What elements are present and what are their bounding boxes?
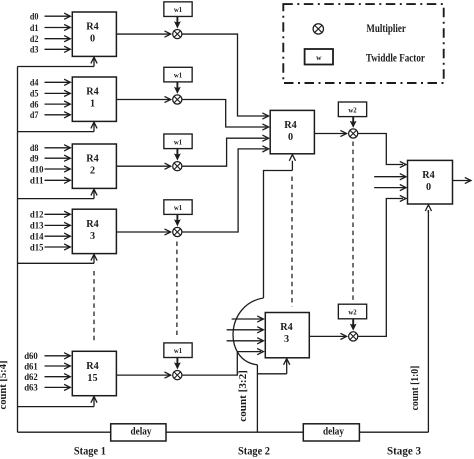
svg-text:d10: d10: [30, 165, 44, 175]
svg-text:d62: d62: [24, 373, 38, 383]
svg-text:w: w: [316, 53, 322, 62]
svg-text:w1: w1: [174, 139, 183, 146]
svg-text:w2: w2: [348, 310, 357, 317]
svg-text:d13: d13: [30, 222, 44, 232]
svg-text:Stage 3: Stage 3: [387, 444, 421, 458]
svg-text:Twiddle Factor: Twiddle Factor: [366, 52, 425, 64]
svg-text:count [5:4]: count [5:4]: [0, 361, 9, 410]
svg-text:d4: d4: [30, 79, 39, 89]
svg-text:0: 0: [90, 34, 95, 45]
svg-text:d8: d8: [30, 144, 39, 154]
svg-text:d12: d12: [30, 211, 44, 221]
svg-text:d1: d1: [30, 24, 39, 34]
svg-text:R4: R4: [284, 120, 296, 131]
svg-text:d60: d60: [24, 352, 38, 362]
svg-text:R4: R4: [86, 87, 98, 98]
svg-text:count [3:2]: count [3:2]: [238, 370, 249, 422]
svg-text:3: 3: [284, 334, 289, 345]
svg-text:R4: R4: [86, 22, 98, 33]
svg-text:Multiplier: Multiplier: [366, 23, 406, 35]
svg-text:0: 0: [426, 182, 431, 193]
svg-text:count [1:0]: count [1:0]: [410, 366, 421, 411]
svg-text:d11: d11: [30, 177, 44, 187]
svg-text:R4: R4: [86, 361, 98, 372]
svg-text:w1: w1: [174, 205, 183, 212]
svg-text:d2: d2: [30, 35, 39, 45]
svg-text:d5: d5: [30, 90, 39, 100]
svg-text:d3: d3: [30, 46, 39, 56]
svg-text:d63: d63: [24, 384, 38, 394]
svg-text:delay: delay: [323, 427, 344, 438]
svg-text:15: 15: [87, 373, 97, 384]
svg-text:w1: w1: [174, 7, 183, 14]
svg-text:0: 0: [288, 132, 293, 143]
svg-text:w1: w1: [174, 348, 183, 355]
svg-text:delay: delay: [131, 427, 152, 438]
svg-text:3: 3: [90, 231, 95, 242]
svg-text:d0: d0: [30, 13, 39, 23]
svg-text:2: 2: [90, 166, 95, 177]
svg-text:w2: w2: [348, 107, 357, 114]
svg-text:R4: R4: [422, 170, 434, 181]
svg-text:w1: w1: [174, 73, 183, 80]
svg-text:R4: R4: [280, 322, 292, 333]
svg-text:d15: d15: [30, 243, 44, 253]
svg-text:1: 1: [90, 99, 95, 110]
svg-text:Stage 2: Stage 2: [238, 444, 270, 458]
svg-text:d7: d7: [30, 111, 39, 121]
svg-text:d14: d14: [30, 233, 44, 243]
svg-text:R4: R4: [86, 154, 98, 165]
svg-text:d9: d9: [30, 155, 39, 165]
svg-text:Stage 1: Stage 1: [74, 444, 106, 458]
svg-text:d61: d61: [24, 362, 38, 372]
svg-text:d6: d6: [30, 100, 39, 110]
svg-text:R4: R4: [86, 219, 98, 230]
